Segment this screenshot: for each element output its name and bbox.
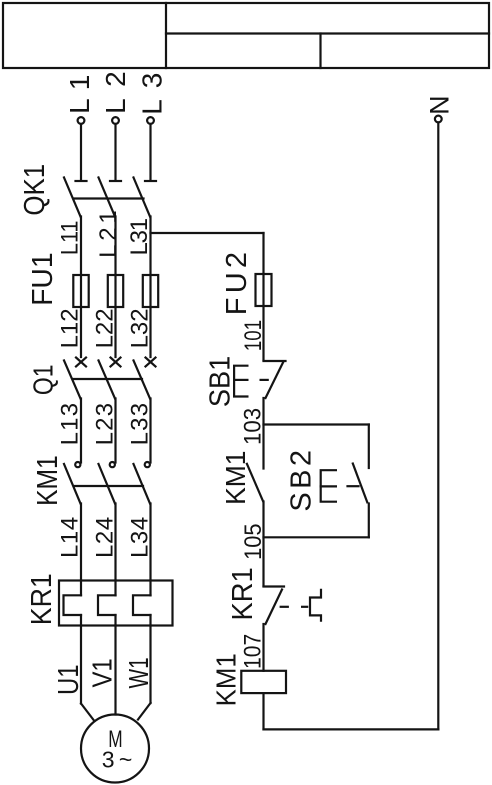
label 103 [240,408,267,445]
button SB1 fixed contact [264,360,286,362]
breaker Q1 pole 1 contact cross [76,358,86,367]
label L13 [57,403,84,446]
label L3 [137,73,168,115]
label W1 [123,657,154,688]
wire coil to bottom [262,693,264,729]
label N [425,95,455,115]
contactor KM1 aux label [220,451,251,505]
switch QK1 linkage bar [74,197,144,199]
wire U1 to motor [81,626,94,721]
label 105 [240,524,267,560]
thermal relay KR1 box [59,581,173,626]
label L32 [127,308,154,348]
terminal N [435,116,442,123]
label 107 [240,634,267,669]
svg-text:KM1: KM1 [220,451,251,505]
wire L3 to QK1 [149,124,151,180]
svg-text:W1: W1 [123,657,154,688]
svg-text:L24: L24 [92,517,119,558]
wire QK1 pole 1 to Q1 [80,217,82,358]
switch QK1 label [19,164,51,216]
wire Q1 pole 1 to KM1 [80,399,82,463]
wire Q1 pole 3 to KM1 [149,399,151,463]
svg-text:101: 101 [240,320,267,351]
svg-text:N: N [425,95,455,115]
svg-text:KR1: KR1 [227,567,259,620]
switch QK1 pole 1 blade [64,178,81,217]
svg-text:L3: L3 [137,73,168,115]
svg-text:107: 107 [240,634,267,669]
thermal relay KR1 heater 1 [64,581,82,626]
fuse FU1 pole 2 [108,275,123,307]
wire KM1 pole 3 to KR1 [149,504,151,581]
wire QK1 pole 2 to Q1 [114,217,116,358]
switch QK1 pole 2 fixed contact [110,180,121,182]
svg-text:KM1: KM1 [211,653,242,706]
label L33 [127,403,154,446]
svg-text:KM1: KM1 [32,455,64,506]
fuse FU2 label [221,252,253,315]
motor M letter [108,726,122,753]
fuse FU1 label [27,252,59,306]
svg-text:L1: L1 [64,75,95,114]
motor 3~ label [102,747,133,773]
contactor KM1 pole 2 contact circle [110,462,115,467]
button SB2 label [286,450,318,512]
svg-text:SB2: SB2 [286,450,318,512]
breaker Q1 pole 3 contact cross [146,358,156,367]
breaker Q1 pole 2 contact cross [111,358,121,367]
wire V1 to motor [114,626,116,715]
button SB2 cap [321,470,336,502]
wire bottom return [264,728,439,730]
breaker Q1 pole 2 blade [99,361,116,399]
wire branch to SB2 [368,425,370,469]
label L14 [57,517,84,558]
svg-text:L21: L21 [95,210,122,258]
wire N line [437,123,439,730]
wire L1 to QK1 [80,124,82,180]
wire L2 to QK1 [114,124,116,180]
wire SB2 branch bottom [264,536,369,538]
svg-text:SB1: SB1 [204,356,236,407]
wire FU2 to SB1 [262,274,264,360]
thermal relay KR1 heater 2 [98,581,116,626]
contactor KM1 pole 3 blade [134,464,151,504]
svg-text:L32: L32 [127,308,154,348]
title block divider vertical left [165,3,167,68]
title block divider horizontal [166,32,489,34]
label L23 [92,403,119,446]
thermal contact KR1 fixed contact [264,585,285,587]
wire branch node L31 to FU2 [151,233,264,274]
breaker Q1 label [27,365,58,396]
svg-text:L22: L22 [92,308,119,348]
title block divider vertical right [319,34,321,69]
label U1 [53,664,85,695]
breaker Q1 linkage bar [73,378,142,380]
wire QK1 pole 3 to Q1 [149,217,151,358]
terminal L2 [112,117,119,124]
svg-text:L23: L23 [92,403,119,446]
contactor KM1 pole 1 blade [64,464,81,504]
thermal contact KR1 trip paddle [310,590,321,621]
button SB2 blade [353,464,368,503]
fuse FU2 [256,274,272,306]
fuse FU1 pole 3 [143,275,158,307]
motor M circle [81,715,149,783]
svg-text:FU1: FU1 [27,252,59,306]
svg-text:L12: L12 [57,308,84,348]
svg-text:105: 105 [240,524,267,560]
wire KM1 pole 1 to KR1 [80,504,82,581]
wire SB2 to node 105 [368,504,370,538]
label L31 [126,218,153,256]
svg-text:103: 103 [240,408,267,445]
button SB2 actuator dash [348,485,359,487]
terminal L1 [78,117,85,124]
node 103 branch wire [264,423,369,425]
wire SB1 to KM1 aux [262,398,264,469]
fuse FU1 pole 1 [73,275,88,307]
svg-text:FU2: FU2 [221,252,253,315]
label 101 [240,320,267,351]
wire W1 to motor [138,626,151,720]
wire Q1 pole 2 to KM1 [114,399,116,463]
thermal contact KR1 blade [266,590,283,625]
label L21 [95,210,122,258]
switch QK1 pole 1 fixed contact [76,180,87,182]
coil KM1 [241,671,286,693]
thermal relay KR1 heater 3 [133,581,151,626]
label V1 [87,658,118,687]
svg-text:QK1: QK1 [19,164,51,216]
contactor KM1 linkage bar [74,485,143,487]
wire KM1 pole 2 to KR1 [114,504,116,581]
wire KM1 aux to KR1 contact [262,502,264,587]
thermal contact KR1 label [227,567,259,620]
svg-text:L2: L2 [100,71,131,114]
svg-text:L14: L14 [57,517,84,558]
svg-text:L34: L34 [127,517,154,558]
contactor KM1 aux blade [247,464,263,502]
thermal contact KR1 dashes [281,606,308,608]
svg-text:V1: V1 [87,658,118,687]
wire KR1 contact to coil [262,624,264,671]
svg-text:Q1: Q1 [27,365,58,396]
label L11 [57,221,84,256]
terminal L3 [147,117,154,124]
svg-text:L31: L31 [126,218,153,256]
label L2 [100,71,131,114]
label L34 [127,517,154,558]
svg-text:L13: L13 [57,403,84,446]
svg-text:L11: L11 [57,221,84,256]
button SB1 label [204,356,236,407]
label L22 [92,308,119,348]
label L24 [92,517,119,558]
svg-text:L33: L33 [127,403,154,446]
svg-text:KR1: KR1 [26,573,58,625]
contactor KM1 pole 1 contact circle [75,462,80,467]
breaker Q1 pole 3 blade [134,361,151,399]
title block outer frame [3,3,489,68]
switch QK1 pole 2 blade [99,178,116,217]
breaker Q1 pole 1 blade [64,361,81,399]
label L1 [64,75,95,114]
label L12 [57,308,84,348]
button SB1 cap [234,366,247,397]
switch QK1 pole 3 blade [134,178,151,217]
button SB1 actuator dash [261,379,268,381]
button SB1 blade [266,362,284,399]
contactor KM1 main label [32,455,64,506]
thermal relay KR1 label [26,573,58,625]
contactor KM1 pole 2 blade [99,464,116,504]
coil KM1 label [211,653,242,706]
switch QK1 pole 3 fixed contact [145,180,156,182]
contactor KM1 pole 3 contact circle [145,462,150,467]
